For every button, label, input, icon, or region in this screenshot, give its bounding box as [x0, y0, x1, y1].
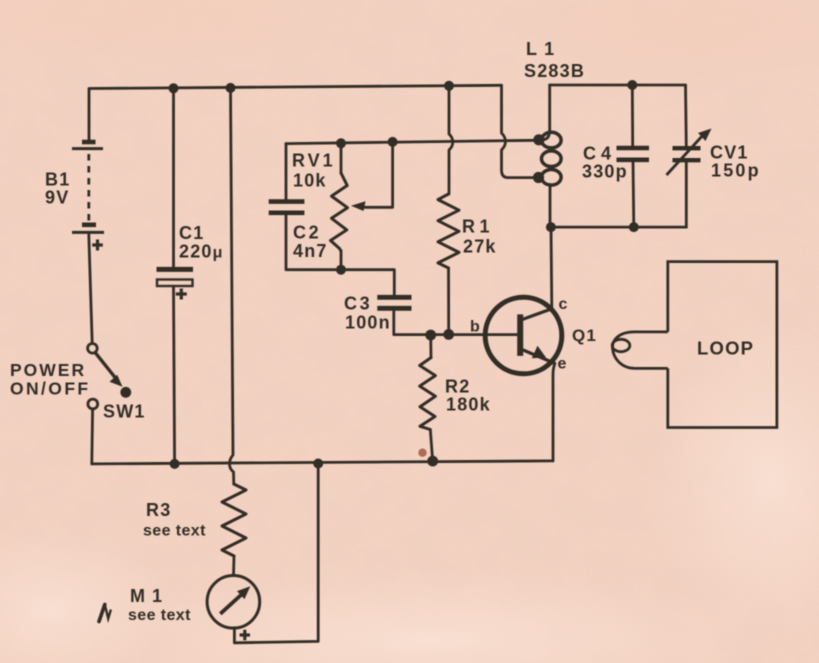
inductor L1 bottom tap dot [533, 172, 544, 183]
wire mid rail (RV1 rail) to L1 top tap [286, 140, 536, 143]
svg-text:M1: M1 [130, 586, 169, 606]
svg-text:b: b [470, 319, 481, 336]
capacitor C1 220u electrolytic plates [157, 269, 194, 286]
svg-text:CV1: CV1 [710, 143, 749, 163]
svg-text:B1: B1 [45, 170, 70, 190]
svg-text:ON/OFF: ON/OFF [10, 379, 91, 399]
battery B1 plus sign [92, 240, 103, 251]
svg-text:e: e [558, 356, 568, 373]
wire R2 bottom lead [430, 430, 432, 462]
svg-text:see text: see text [128, 607, 191, 624]
wire tank right side lower [685, 161, 688, 228]
wire tank left top leg down to L1 top tap [542, 85, 550, 140]
svg-text:L 1: L 1 [526, 39, 555, 59]
svg-text:see text: see text [143, 523, 206, 540]
capacitor C4 330p plates [617, 148, 650, 160]
LOOP coupling single turn [612, 339, 630, 351]
wire collector to tank bottom [550, 227, 554, 309]
wire R3 long vertical from top rail (hop over bottom rail) [230, 88, 234, 484]
node tank bottom / C4 junction [629, 222, 639, 232]
wire below L1 to tank bottom [549, 185, 552, 228]
meter M1 needle arrowhead [237, 586, 250, 599]
inductor L1 top tap dot [533, 134, 544, 145]
battery B1 top cell [72, 142, 103, 149]
svg-text:R3: R3 [146, 500, 171, 520]
svg-text:POWER: POWER [10, 360, 86, 380]
node mid rail / wiper junction [388, 137, 398, 147]
capacitor C2 4n7 plates [269, 202, 305, 213]
svg-text:9V: 9V [45, 188, 69, 208]
transistor Q1 emitter arrowhead [532, 346, 546, 359]
battery B1 bottom cell [72, 225, 104, 233]
resistor R1 27k zigzag [438, 194, 459, 268]
wire tank top rail [550, 84, 686, 87]
capacitor C3 100n plates [377, 297, 411, 308]
wire C4 branch upper [631, 85, 634, 146]
svg-text:C2: C2 [293, 223, 321, 243]
switch SW1 bottom contact [88, 399, 98, 409]
wire RV1 top lead [340, 143, 343, 173]
wire C1 branch bottom [174, 287, 175, 464]
svg-text:c: c [559, 296, 569, 313]
node base line / R2 junction [425, 330, 436, 341]
node tank top / C4 junction [627, 80, 637, 90]
node bottom rail / C1 junction [170, 459, 180, 469]
wire emitter down to bottom rail [553, 363, 555, 461]
variable capacitor CV1 arrow [667, 134, 705, 175]
resistor R3 zigzag [222, 484, 246, 556]
transistor Q1 circle [485, 297, 562, 374]
node top rail / R1 branch junction [444, 81, 454, 91]
meter M1 circle [207, 576, 260, 629]
svg-text:SW1: SW1 [103, 402, 146, 422]
svg-text:R2: R2 [445, 377, 470, 397]
wire meter bottom loop back to bottom rail [234, 464, 318, 643]
svg-text:180k: 180k [446, 395, 491, 415]
svg-text:27k: 27k [463, 237, 497, 257]
meter M1 needle [220, 594, 242, 614]
wire switch to bottom rail corner [90, 409, 94, 464]
potentiometer RV1 10k zigzag [331, 173, 348, 251]
transistor Q1 base bar [517, 314, 523, 356]
wire R1 vertical from top rail (hop over mid rail) [449, 86, 453, 194]
switch SW1 lever [95, 353, 117, 381]
potentiometer RV1 wiper arrowhead [351, 201, 366, 211]
svg-text:C4: C4 [583, 144, 616, 164]
svg-text:330p: 330p [582, 162, 628, 182]
stain artifact dot [418, 449, 426, 457]
node base line / R1 junction [443, 329, 454, 340]
wire C4 branch lower [632, 162, 636, 228]
node bottom rail / meter return junction [313, 459, 323, 469]
wire C1 branch top [172, 88, 175, 267]
wire below C3 to transistor base [394, 311, 517, 335]
svg-text:100n: 100n [345, 313, 391, 333]
node RV1 bottom junction [336, 265, 346, 275]
wire RV1 bottom lead [340, 251, 343, 270]
switch SW1 lever end dot [120, 387, 131, 398]
inductor L1 S283B coil loops [542, 132, 562, 185]
capacitor C1 plus sign [176, 289, 187, 300]
node bottom rail / R2 junction [427, 456, 438, 467]
svg-text:S283B: S283B [524, 61, 585, 81]
transistor Q1 collector stroke [522, 309, 552, 320]
wire mid-rail left leg down to C2 [285, 144, 288, 200]
switch SW1 top contact [88, 344, 98, 354]
meter M1 plus sign [240, 630, 250, 640]
wire below C2 to RV1 bottom rail [286, 215, 394, 295]
wire RV1 wiper from mid rail [364, 142, 393, 207]
svg-text:R1: R1 [462, 217, 494, 237]
wire R2 top lead [429, 335, 432, 358]
svg-text:Q1: Q1 [572, 326, 597, 345]
svg-text:4n7: 4n7 [293, 241, 328, 261]
svg-text:220μ: 220μ [179, 242, 224, 262]
LOOP box [668, 262, 777, 428]
LOOP coupling link wire [612, 332, 667, 369]
wire tank bottom rail [550, 226, 687, 229]
svg-text:LOOP: LOOP [697, 338, 754, 359]
node top rail / R3 branch junction [226, 83, 236, 93]
svg-text:C1: C1 [179, 223, 204, 243]
variable capacitor CV1 150p plates [673, 148, 701, 160]
transistor Q1 emitter stroke [521, 349, 555, 363]
node tank bottom / collector junction [546, 222, 556, 232]
node top rail / C1 junction [169, 83, 179, 93]
wire vertical from top rail to L1 lower tap (hop over mid rail) [502, 85, 534, 177]
battery B1 dashed middle [87, 154, 90, 222]
svg-text:C3: C3 [344, 294, 372, 314]
wire bottom rail [92, 461, 553, 464]
wire R3 to meter [232, 556, 235, 576]
svg-text:RV1: RV1 [292, 151, 336, 171]
label microamp mark [99, 605, 105, 622]
wire R1 bottom lead to base line [447, 268, 450, 335]
node mid rail / RV1 junction [336, 138, 346, 148]
resistor R2 180k zigzag [420, 358, 436, 430]
wire battery to switch [89, 235, 92, 344]
svg-text:10k: 10k [293, 171, 327, 191]
wire tank right side upper (CV1) [684, 85, 688, 148]
svg-text:150p: 150p [711, 161, 761, 181]
wire top rail from battery to L1 tap vertical [89, 85, 502, 141]
